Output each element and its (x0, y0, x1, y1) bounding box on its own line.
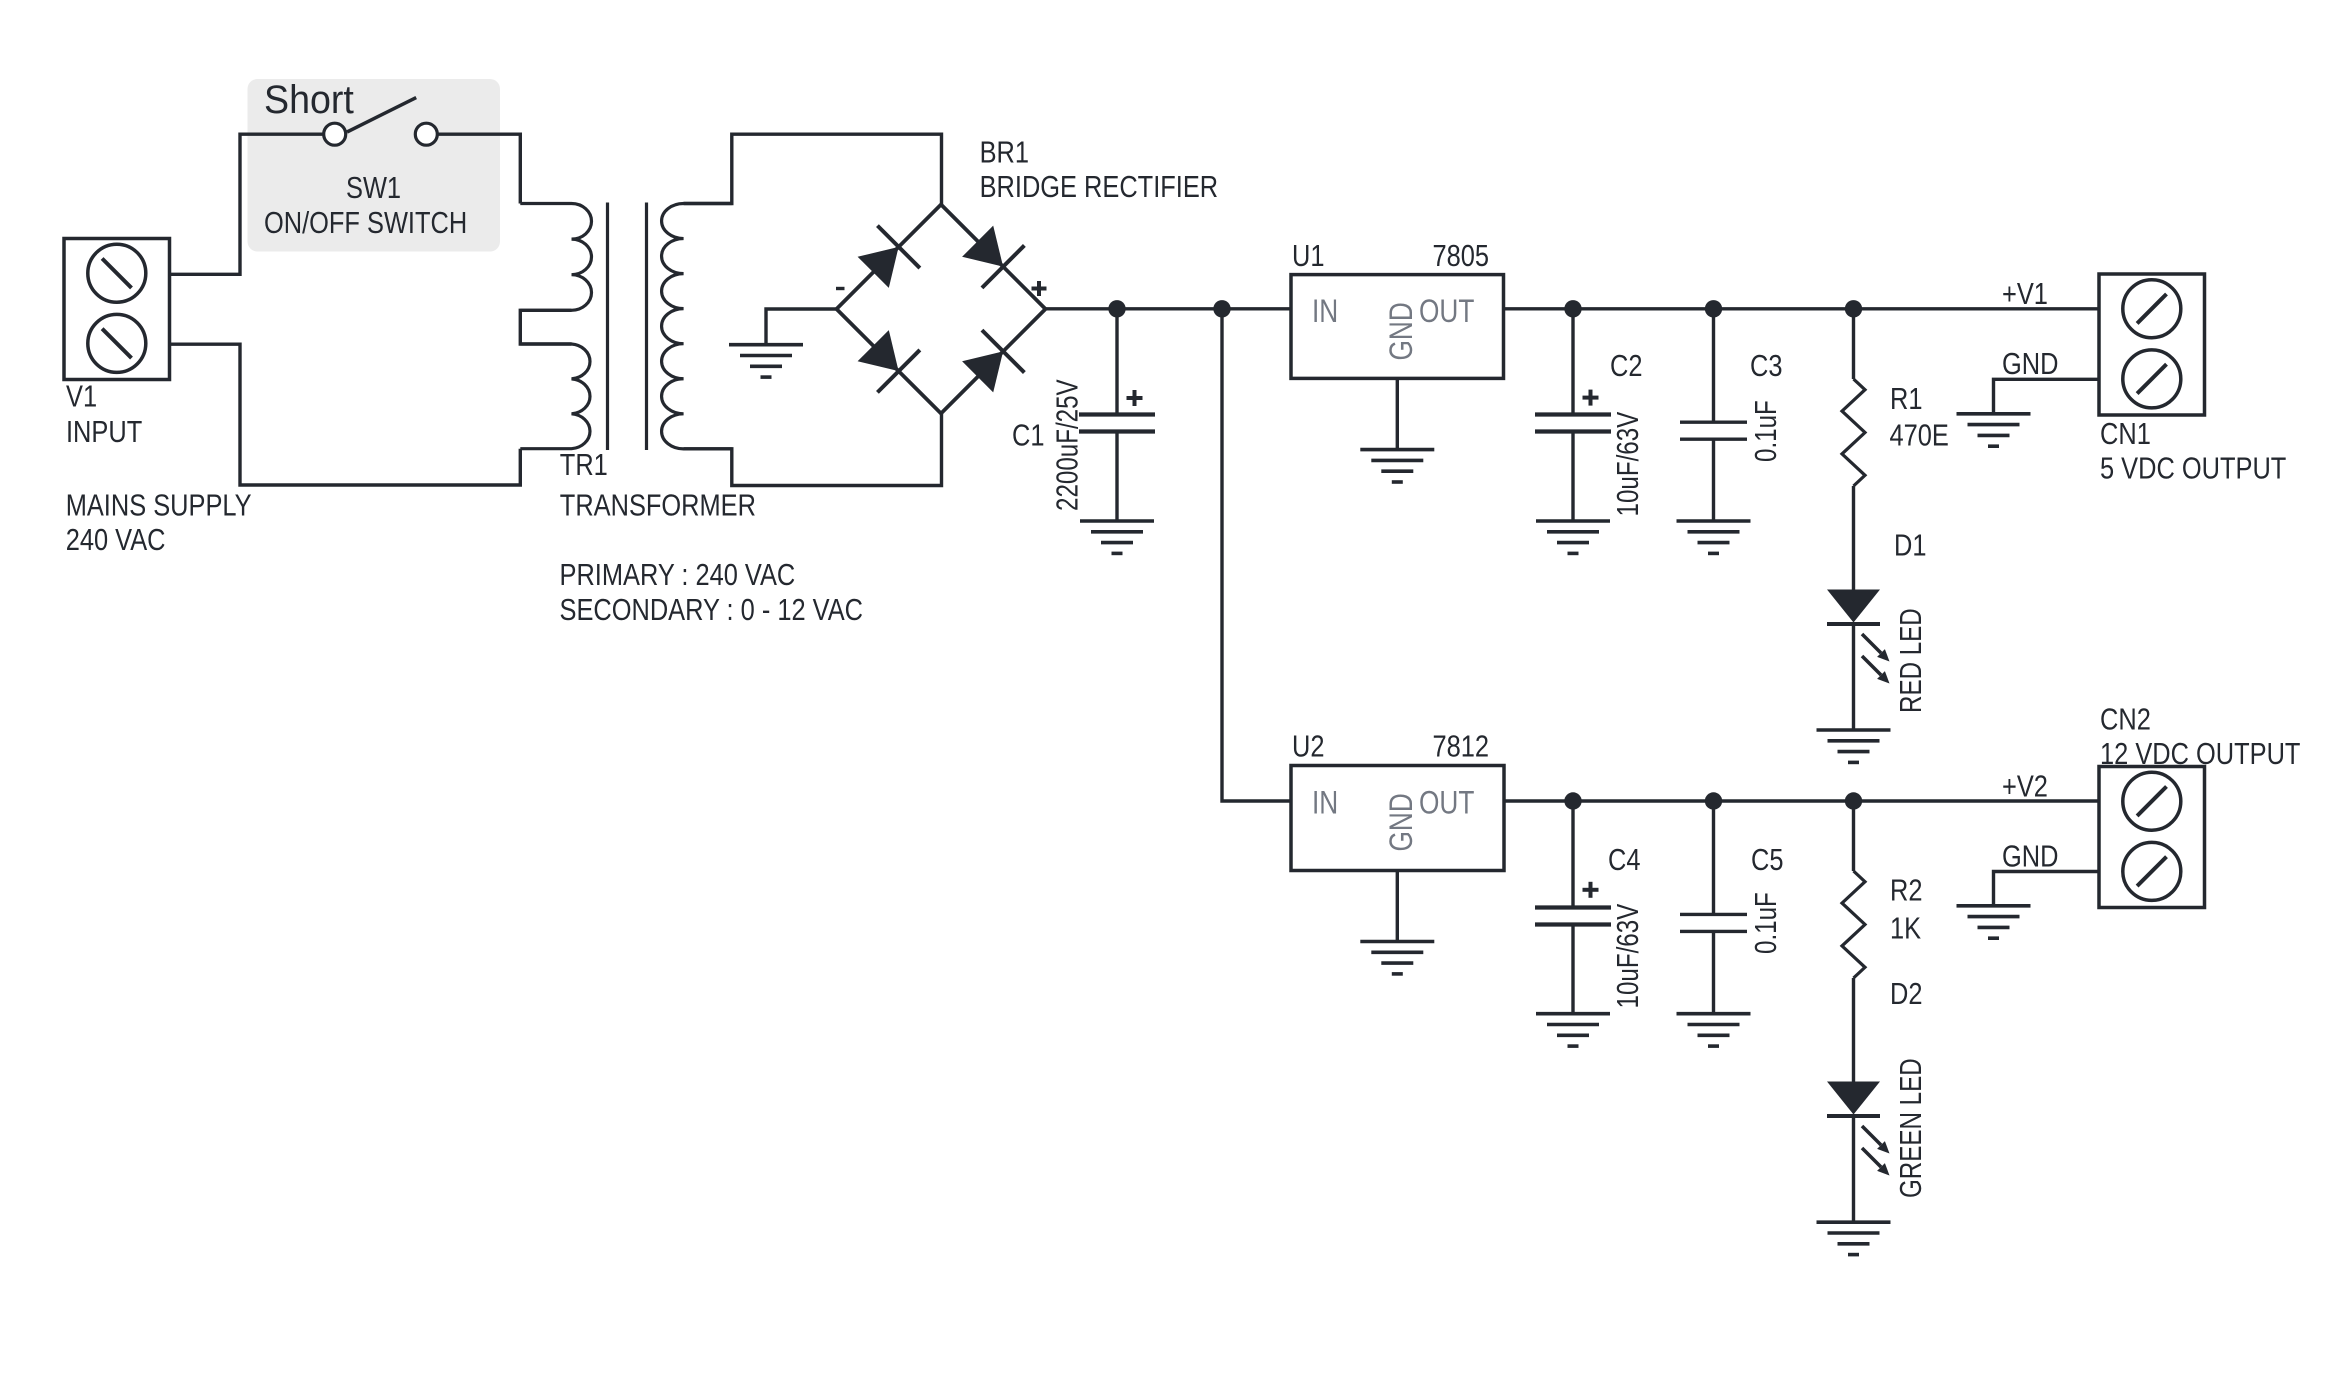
svg-text:GND: GND (1385, 302, 1420, 360)
svg-text:R1: R1 (1890, 381, 1922, 416)
svg-text:0.1uF: 0.1uF (1748, 400, 1783, 462)
svg-text:RED LED: RED LED (1893, 608, 1928, 713)
svg-text:Short: Short (264, 78, 354, 122)
svg-text:+V2: +V2 (2002, 769, 2048, 804)
svg-text:7812: 7812 (1433, 729, 1490, 764)
svg-text:CN1: CN1 (2100, 417, 2151, 452)
svg-text:C1: C1 (1012, 418, 1044, 453)
svg-text:IN: IN (1312, 786, 1338, 821)
svg-text:C4: C4 (1608, 843, 1640, 878)
svg-text:U2: U2 (1292, 729, 1324, 764)
svg-text:0.1uF: 0.1uF (1748, 892, 1783, 954)
svg-text:5 VDC OUTPUT: 5 VDC OUTPUT (2100, 451, 2286, 486)
svg-text:BR1: BR1 (980, 135, 1029, 170)
svg-text:MAINS SUPPLY: MAINS SUPPLY (66, 488, 252, 523)
svg-text:TR1: TR1 (560, 448, 608, 483)
svg-text:GND: GND (2002, 839, 2058, 874)
svg-text:OUT: OUT (1419, 295, 1474, 330)
svg-text:D2: D2 (1890, 977, 1922, 1012)
svg-text:SW1: SW1 (346, 171, 401, 206)
svg-text:BRIDGE RECTIFIER: BRIDGE RECTIFIER (980, 170, 1219, 205)
svg-text:7805: 7805 (1433, 239, 1490, 274)
svg-text:V1: V1 (66, 379, 97, 414)
svg-text:SECONDARY : 0 - 12 VAC: SECONDARY : 0 - 12 VAC (560, 593, 864, 628)
svg-text:INPUT: INPUT (66, 415, 142, 450)
svg-text:10uF/63V: 10uF/63V (1610, 411, 1645, 516)
svg-text:GND: GND (1385, 793, 1420, 851)
svg-text:D1: D1 (1894, 528, 1926, 563)
svg-text:TRANSFORMER: TRANSFORMER (560, 488, 756, 523)
svg-text:10uF/63V: 10uF/63V (1610, 903, 1645, 1008)
svg-text:2200uF/25V: 2200uF/25V (1050, 379, 1085, 511)
svg-text:1K: 1K (1890, 911, 1921, 946)
svg-text:C5: C5 (1751, 843, 1783, 878)
svg-text:470E: 470E (1890, 418, 1949, 453)
svg-text:GND: GND (2002, 347, 2058, 382)
svg-text:OUT: OUT (1419, 786, 1474, 821)
svg-text:12 VDC OUTPUT: 12 VDC OUTPUT (2100, 737, 2300, 772)
svg-text:IN: IN (1312, 295, 1338, 330)
svg-text:CN2: CN2 (2100, 702, 2151, 737)
svg-text:PRIMARY : 240 VAC: PRIMARY : 240 VAC (560, 558, 796, 593)
svg-text:R2: R2 (1890, 873, 1922, 908)
svg-text:C2: C2 (1610, 349, 1642, 384)
svg-text:U1: U1 (1292, 239, 1324, 274)
svg-text:240 VAC: 240 VAC (66, 523, 166, 558)
svg-text:+V1: +V1 (2002, 277, 2048, 312)
svg-text:GREEN LED: GREEN LED (1893, 1058, 1928, 1198)
svg-text:ON/OFF SWITCH: ON/OFF SWITCH (264, 206, 467, 241)
svg-text:C3: C3 (1750, 349, 1782, 384)
